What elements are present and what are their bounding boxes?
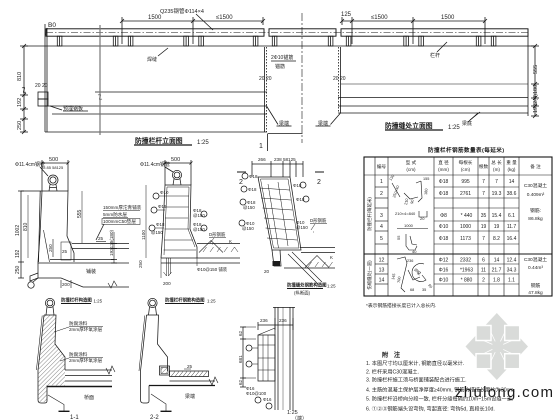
svg-text:20: 20 — [264, 269, 270, 274]
svg-text:Φ12: Φ12 — [439, 258, 449, 264]
svg-text:Φ18: Φ18 — [156, 222, 165, 227]
hatching — [38, 315, 65, 402]
svg-text:Φ18: Φ18 — [439, 191, 449, 197]
svg-text:250: 250 — [138, 260, 143, 268]
svg-text:防腐涂料: 防腐涂料 — [69, 320, 88, 327]
deck top line — [45, 45, 528, 47]
svg-text:2-2: 2-2 — [150, 415, 159, 420]
svg-text:Φ18: Φ18 — [439, 236, 449, 242]
svg-text:200: 200 — [62, 282, 70, 287]
rail pipe head — [45, 298, 54, 307]
svg-text:1500: 1500 — [148, 15, 162, 21]
svg-text:7: 7 — [495, 179, 498, 185]
rebar cage — [258, 335, 275, 381]
joint chamfers — [267, 106, 279, 125]
svg-text:1922(4)180: 1922(4)180 — [533, 85, 539, 113]
svg-text:14: 14 — [494, 258, 500, 264]
total length column — [492, 179, 502, 284]
right dim chain sec1 — [113, 232, 115, 263]
svg-text:Φ18: Φ18 — [248, 187, 257, 192]
length column — [460, 179, 473, 284]
svg-text:25: 25 — [98, 236, 104, 241]
dim 555 inner — [81, 191, 83, 243]
svg-text:1: 1 — [380, 179, 383, 185]
deck slab right — [65, 369, 112, 371]
svg-text:1-1: 1-1 — [70, 415, 79, 420]
barrier body outline — [44, 315, 65, 370]
svg-text:防撞栏杆钢筋数量表(每延米): 防撞栏杆钢筋数量表(每延米) — [428, 146, 504, 154]
svg-text:236: 236 — [279, 318, 287, 323]
svg-text:13: 13 — [379, 268, 385, 274]
svg-text:@150: @150 — [151, 230, 163, 235]
svg-text:铺装: 铺装 — [86, 268, 96, 275]
svg-text:192: 192 — [17, 98, 23, 107]
shape sketches col3 rows1-2 — [389, 174, 430, 205]
svg-text:型 式: 型 式 — [406, 159, 417, 165]
svg-text:桥面: 桥面 — [84, 394, 94, 401]
svg-text:100mmC50垫层: 100mmC50垫层 — [103, 218, 136, 225]
svg-text:55: 55 — [396, 235, 401, 240]
svg-text:1: 1 — [259, 143, 263, 150]
section mark 2 left — [237, 171, 246, 173]
svg-text:5: 5 — [380, 236, 383, 242]
svg-text:14: 14 — [509, 179, 515, 185]
svg-text:K: K — [229, 239, 232, 244]
svg-text:@150: @150 — [242, 226, 254, 231]
count column — [481, 179, 487, 284]
svg-text:16.4: 16.4 — [507, 236, 517, 242]
datum leader — [48, 395, 64, 411]
post verticals — [274, 307, 276, 410]
svg-text:810: 810 — [23, 222, 29, 231]
svg-text:1100: 1100 — [141, 230, 146, 240]
rail pipe head — [148, 298, 157, 307]
svg-text:防撞栏杆(每延米): 防撞栏杆(每延米) — [366, 197, 373, 231]
svg-text:20 20: 20 20 — [259, 76, 272, 82]
section mark 2 right — [315, 171, 324, 173]
callouts — [246, 345, 252, 351]
svg-text:20 20: 20 20 — [333, 76, 346, 82]
dim line right half — [340, 17, 487, 44]
remarks column — [524, 182, 547, 296]
deck surface label — [470, 112, 480, 120]
svg-text:编号: 编号 — [377, 163, 387, 170]
svg-text:2mm厚环氧涂层: 2mm厚环氧涂层 — [69, 357, 103, 364]
svg-text:备 注: 备 注 — [530, 163, 541, 170]
svg-text:180: 180 — [424, 188, 429, 195]
svg-text:250: 250 — [15, 265, 21, 274]
left dim chain sec1 — [20, 191, 22, 278]
svg-text:7: 7 — [482, 191, 485, 197]
svg-text:≤1500: ≤1500 — [216, 15, 233, 21]
svg-text:3: 3 — [380, 213, 383, 219]
svg-text:62: 62 — [238, 330, 243, 336]
rail weld label — [158, 48, 168, 56]
svg-text:7: 7 — [482, 236, 485, 242]
svg-text:Q235钢管Φ114×4: Q235钢管Φ114×4 — [160, 7, 204, 15]
svg-text:250: 250 — [48, 244, 53, 252]
svg-text:2: 2 — [239, 179, 243, 186]
rail pipe segment 1 — [46, 29, 264, 36]
right end edge — [527, 29, 529, 116]
svg-text:1:25: 1:25 — [207, 299, 216, 304]
hatched pavement band — [170, 371, 209, 377]
svg-text:47.8kg: 47.8kg — [528, 290, 543, 296]
svg-text:210: 210 — [404, 198, 409, 205]
svg-text:266: 266 — [258, 157, 266, 162]
svg-text:Φ10: Φ10 — [439, 224, 449, 230]
svg-text:钢筋: 钢筋 — [531, 282, 541, 289]
shape sketch row3 — [395, 211, 427, 221]
svg-text:Φ10@100: Φ10@100 — [246, 391, 267, 396]
svg-text:155: 155 — [423, 177, 429, 181]
svg-text:Φ16: Φ16 — [439, 268, 449, 274]
svg-text:238 58125: 238 58125 — [274, 157, 296, 162]
svg-text:810: 810 — [17, 72, 23, 81]
svg-text:200: 200 — [163, 281, 171, 286]
svg-text:500: 500 — [49, 157, 58, 163]
rail label right — [437, 42, 447, 52]
svg-text:681: 681 — [238, 355, 243, 363]
anchor plate at abutment — [38, 92, 48, 99]
rail pipe circle — [48, 175, 58, 185]
svg-text:34.3: 34.3 — [507, 268, 517, 274]
svg-text:2. 栏杆采用C30混凝土.: 2. 栏杆采用C30混凝土. — [366, 368, 419, 376]
internal bars — [260, 182, 298, 248]
svg-text:19: 19 — [481, 224, 487, 230]
joint edge right — [338, 47, 340, 113]
svg-text:焊缝: 焊缝 — [147, 56, 157, 63]
header texts — [377, 159, 541, 172]
svg-text:15.4: 15.4 — [492, 213, 502, 219]
svg-text:C30混凝土: C30混凝土 — [524, 256, 547, 263]
row numbers — [379, 179, 385, 284]
svg-text:1500: 1500 — [441, 15, 455, 21]
svg-text:D形钢筋: D形钢筋 — [209, 231, 226, 238]
svg-text:62: 62 — [238, 379, 243, 385]
svg-text:Φ18: Φ18 — [249, 174, 258, 179]
svg-text:*1963: *1963 — [460, 268, 473, 274]
svg-text:21.7: 21.7 — [492, 268, 502, 274]
svg-text:0.409m³: 0.409m³ — [527, 192, 545, 198]
svg-text:5mm防水层: 5mm防水层 — [103, 211, 127, 218]
svg-text:@150: @150 — [243, 205, 255, 210]
svg-text:2332: 2332 — [460, 258, 471, 264]
barrier outline — [165, 185, 197, 258]
svg-text:236: 236 — [407, 259, 413, 263]
dims near kerb — [52, 239, 54, 257]
svg-text:1:25: 1:25 — [197, 140, 209, 146]
svg-text:500: 500 — [171, 157, 180, 163]
svg-text:B0: B0 — [48, 22, 56, 29]
svg-text:555: 555 — [77, 209, 83, 218]
svg-text:(m): (m) — [493, 167, 500, 172]
svg-text:1.1: 1.1 — [508, 278, 515, 284]
joint armor box — [160, 366, 170, 375]
svg-text:2Φ10锚筋: 2Φ10锚筋 — [271, 54, 293, 61]
svg-text:90: 90 — [410, 199, 415, 204]
svg-text:11.7: 11.7 — [507, 224, 517, 230]
svg-text:Φ11.4cm钢管: Φ11.4cm钢管 — [15, 161, 45, 168]
rail pipe segment 2 — [269, 29, 336, 36]
girder lines right part — [338, 105, 528, 107]
svg-text:8.2: 8.2 — [493, 236, 500, 242]
svg-text:20 20: 20 20 — [35, 83, 48, 89]
svg-text:68: 68 — [410, 288, 414, 292]
svg-text:14: 14 — [379, 278, 385, 284]
svg-text:995: 995 — [461, 179, 470, 185]
joint edge left — [266, 47, 268, 132]
svg-text:20: 20 — [420, 216, 425, 221]
svg-text:Φ16: Φ16 — [263, 397, 272, 402]
svg-text:86.8kg: 86.8kg — [528, 216, 543, 222]
svg-text:6: 6 — [482, 258, 485, 264]
svg-text:19: 19 — [494, 224, 500, 230]
deck soffit — [38, 278, 129, 287]
svg-text:6. ①②③钢筋端头设弯钩, 弯起直径: 弯钩5d, 直段长: 6. ①②③钢筋端头设弯钩, 弯起直径: 弯钩5d, 直段长10d. — [366, 405, 495, 413]
horizontal grid — [364, 174, 552, 176]
section mark 1 — [267, 134, 269, 151]
svg-text:C30混凝土: C30混凝土 — [524, 182, 547, 189]
svg-text:4. 主筋的混凝土保护层净厚度≥40mm, 钢筋的搭接长度均: 4. 主筋的混凝土保护层净厚度≥40mm, 钢筋的搭接长度均为30cm. — [366, 386, 515, 394]
svg-text:3. 防撞栏杆施工须与桥面铺装配合进行施工.: 3. 防撞栏杆施工须与桥面铺装配合进行施工. — [366, 376, 467, 384]
svg-text:250: 250 — [17, 121, 23, 130]
svg-text:(cm): (cm) — [461, 167, 471, 172]
shape sketches rows12-14 — [391, 257, 433, 292]
outer border — [364, 157, 552, 296]
svg-text:38.6: 38.6 — [507, 191, 517, 197]
svg-text:11: 11 — [481, 268, 486, 274]
left dims — [145, 185, 147, 258]
pier centerline — [301, 13, 303, 143]
svg-text:≤1500: ≤1500 — [371, 15, 388, 21]
svg-text:Φ10@150 铺装: Φ10@150 铺装 — [197, 266, 228, 273]
svg-text:每根长: 每根长 — [459, 159, 473, 166]
svg-text:19.3: 19.3 — [492, 191, 502, 197]
svg-text:总 长: 总 长 — [491, 159, 502, 166]
svg-text:Φ10: Φ10 — [439, 278, 449, 284]
svg-text:1:25: 1:25 — [448, 125, 460, 131]
svg-text:2761: 2761 — [460, 191, 471, 197]
svg-text:(kg): (kg) — [508, 167, 516, 172]
svg-text:4: 4 — [380, 224, 383, 230]
svg-text:25: 25 — [62, 249, 68, 254]
girder lines left part — [45, 105, 267, 107]
callouts left — [153, 193, 159, 199]
svg-text:栏杆: 栏杆 — [430, 52, 440, 59]
datum leader — [151, 394, 166, 411]
svg-text:（端）: （端） — [292, 415, 307, 420]
svg-text:K: K — [330, 255, 333, 260]
svg-text:Φ8: Φ8 — [440, 213, 447, 219]
svg-text:0.44m³: 0.44m³ — [528, 265, 543, 271]
rail centerline — [46, 32, 528, 34]
svg-text:梁底: 梁底 — [462, 120, 472, 127]
svg-text:D形钢筋: D形钢筋 — [310, 217, 327, 224]
svg-text:192: 192 — [15, 249, 21, 258]
pipe pedestal — [49, 185, 57, 192]
svg-text:(mm): (mm) — [438, 167, 449, 172]
svg-text:防撞栏杆构造图: 防撞栏杆构造图 — [61, 297, 92, 304]
svg-text:梁端: 梁端 — [318, 120, 328, 127]
svg-text:2: 2 — [317, 179, 321, 186]
body outline sheared — [258, 177, 301, 250]
svg-text:防撞栏杆钢筋构造图: 防撞栏杆钢筋构造图 — [165, 297, 205, 304]
svg-text:1000: 1000 — [404, 223, 414, 228]
svg-text:35: 35 — [481, 213, 487, 219]
break line with S mark — [99, 25, 101, 135]
deck slab — [170, 380, 216, 382]
svg-text:@150: @150 — [296, 225, 308, 230]
diameter column — [439, 179, 449, 284]
shape sketch row5 — [396, 234, 417, 254]
svg-text:6.1: 6.1 — [508, 213, 515, 219]
svg-text:35: 35 — [422, 288, 426, 292]
svg-text:12: 12 — [379, 258, 385, 264]
left end edge of barrier — [44, 24, 46, 132]
svg-text:* 440: * 440 — [461, 213, 473, 219]
svg-text:7: 7 — [482, 179, 485, 185]
deck at right — [300, 247, 335, 249]
barrier outline — [147, 315, 168, 371]
svg-text:192125(180): 192125(180) — [109, 229, 114, 256]
svg-text:125: 125 — [341, 12, 352, 18]
watermark logo zhulong — [455, 313, 554, 401]
svg-text:防撞缝处钢筋构造图: 防撞缝处钢筋构造图 — [287, 282, 327, 289]
svg-text:Φ16: Φ16 — [158, 204, 167, 209]
drip wedge — [30, 273, 38, 281]
left dim chain — [242, 327, 244, 387]
svg-text:555: 555 — [533, 65, 539, 74]
svg-text:700: 700 — [397, 276, 402, 283]
right dim chain — [528, 44, 539, 118]
svg-text:1.8: 1.8 — [493, 278, 500, 284]
weight column — [507, 179, 517, 284]
callouts left — [242, 173, 248, 179]
left dim chain — [20, 44, 45, 134]
barrier outline — [42, 191, 74, 262]
svg-text:* 880: * 880 — [461, 278, 473, 284]
svg-text:1. 本图尺寸均以厘米计, 钢筋直径以毫米计.: 1. 本图尺寸均以厘米计, 钢筋直径以毫米计. — [366, 359, 464, 367]
svg-text:附 注: 附 注 — [382, 351, 402, 359]
svg-text:1173: 1173 — [460, 236, 471, 242]
svg-text:25: 25 — [187, 364, 193, 369]
shape sketch row4 — [397, 223, 428, 229]
svg-text:重 量: 重 量 — [506, 159, 517, 166]
svg-text:Φ18: Φ18 — [439, 179, 449, 185]
dim line left half — [120, 17, 265, 44]
svg-text:1:25: 1:25 — [94, 299, 103, 304]
vertical grid — [374, 157, 376, 296]
svg-text:1002: 1002 — [15, 225, 21, 236]
barrier rebar — [167, 187, 195, 247]
svg-text:(cm): (cm) — [406, 167, 416, 172]
svg-text:伤缩缝处(一道): 伤缩缝处(一道) — [366, 260, 373, 290]
svg-text:*表示钢筋搭接长度已计入总长内.: *表示钢筋搭接长度已计入总长内. — [366, 302, 436, 309]
svg-text:90: 90 — [427, 283, 433, 289]
svg-text:直 径: 直 径 — [438, 159, 449, 165]
svg-text:根数: 根数 — [479, 163, 489, 170]
svg-text:12.4: 12.4 — [507, 258, 517, 264]
svg-text:Φ10: Φ10 — [160, 190, 169, 195]
svg-text:ₗ: ₗ — [313, 229, 314, 234]
svg-text:防腐涂料: 防腐涂料 — [69, 351, 88, 358]
svg-text:钢筋:: 钢筋: — [530, 207, 541, 214]
svg-text:2: 2 — [482, 278, 485, 284]
svg-text:150mm厚沱青铺装: 150mm厚沱青铺装 — [103, 204, 142, 211]
svg-text:1:25: 1:25 — [327, 284, 336, 289]
svg-text:2: 2 — [380, 191, 383, 197]
svg-text:防撞缝处立面图: 防撞缝处立面图 — [385, 121, 433, 130]
svg-text:锚筋: 锚筋 — [275, 63, 285, 70]
deck band with shear rebar — [197, 243, 240, 245]
pavement lines — [72, 243, 129, 245]
rail pipe circle — [172, 170, 181, 179]
svg-text:防撞栏杆立面图: 防撞栏杆立面图 — [135, 136, 183, 145]
svg-text:145: 145 — [391, 273, 396, 280]
svg-text:236: 236 — [260, 318, 268, 323]
svg-text:250×40: 250×40 — [392, 185, 400, 198]
svg-text:5. 防撞栏杆沿桥向分段一致, 栏杆分缝每隔约10m~15m: 5. 防撞栏杆沿桥向分段一致, 栏杆分缝每隔约10m~15m设缝一道. — [366, 395, 513, 403]
svg-text:1000: 1000 — [460, 224, 471, 230]
rail pipe segment 3 — [341, 29, 528, 36]
posts — [57, 36, 496, 46]
svg-text:梁端: 梁端 — [185, 393, 195, 400]
svg-text:梁端: 梁端 — [279, 120, 289, 127]
deck label right — [468, 113, 478, 122]
svg-text:210×4=840: 210×4=840 — [395, 211, 416, 216]
svg-text:40: 40 — [412, 249, 417, 254]
pipe pedestal — [173, 179, 181, 185]
svg-text:(纵断面): (纵断面) — [294, 290, 311, 297]
foot with joint filler — [272, 250, 281, 266]
svg-text:2mm厚环氧涂层: 2mm厚环氧涂层 — [69, 326, 103, 333]
